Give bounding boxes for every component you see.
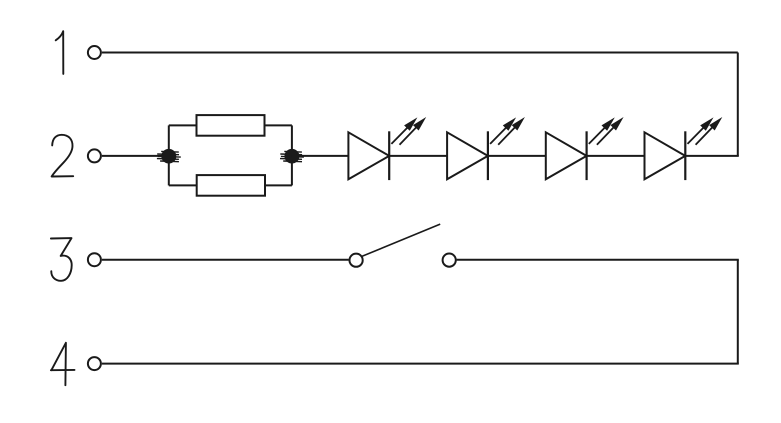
wire parallel block right branch xyxy=(291,125,293,185)
wire top branch xyxy=(169,124,292,126)
pin label 3 xyxy=(51,238,72,281)
switch S1 xyxy=(350,224,456,267)
wire line1 horizontal xyxy=(102,52,738,54)
pin label 4 xyxy=(51,343,75,385)
wire right bus 1-2 vertical xyxy=(737,53,739,156)
wire to LED D4 xyxy=(587,155,645,157)
terminal 3 xyxy=(88,253,101,266)
wire LED chain to right bus xyxy=(685,155,739,157)
wire switch to right bus xyxy=(457,259,739,261)
junction node B xyxy=(280,149,304,164)
wire right bus 3-4 vertical xyxy=(737,260,739,364)
LED D2 xyxy=(447,117,525,180)
wire line3 terminal to switch xyxy=(102,259,349,261)
wire parallel block left branch xyxy=(168,125,170,185)
resistor R1 xyxy=(197,115,265,136)
wire to LED D3 xyxy=(488,155,546,157)
LED D3 xyxy=(546,117,624,180)
wire line2 terminal to node xyxy=(102,155,169,157)
LED D4 xyxy=(645,117,723,180)
wire to LED D1 xyxy=(292,155,349,157)
pin label 1 xyxy=(56,31,64,74)
wire line4 horizontal xyxy=(102,363,739,365)
junction node A xyxy=(157,149,181,164)
pin label 2 xyxy=(52,135,74,177)
terminal 1 xyxy=(88,46,101,59)
LED D1 xyxy=(348,117,426,180)
terminal 2 xyxy=(88,149,101,162)
resistor R2 xyxy=(197,175,265,196)
terminal 4 xyxy=(88,357,101,370)
wire bottom branch xyxy=(169,184,292,186)
wire to LED D2 xyxy=(389,155,447,157)
